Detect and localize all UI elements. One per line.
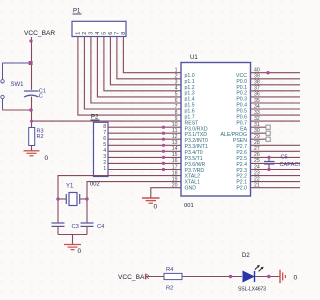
wire (P2.6 pin 27): [251, 150, 301, 152]
wire (P0.5 pin 34): [251, 108, 301, 110]
resistor R3: [29, 128, 44, 146]
svg-text:3: 3: [88, 32, 94, 35]
capacitor C4: [81, 223, 106, 230]
wire (P2.0 pin 21): [251, 187, 301, 189]
svg-text:D2: D2: [242, 253, 250, 259]
svg-text:CAPACITOR: CAPACITOR: [280, 162, 301, 168]
svg-text:Y1: Y1: [66, 184, 74, 190]
svg-text:2: 2: [82, 32, 88, 35]
capacitor C5 (on P2.5/P2.3 lines): [264, 155, 312, 171]
wire (P2 pin 4 to U1 pin 14): [108, 150, 181, 153]
wire (P2 pin 7 to U1 pin 11): [108, 132, 181, 135]
wire (P1 pin 1 to U1 pin 8): [78, 37, 181, 116]
wire (P2 pin 5 to U1 pin 13): [108, 144, 181, 147]
node 002 (net label): [90, 182, 100, 188]
wire (P2 pin 1 to U1 pin 17): [108, 168, 181, 171]
wire (P0.1 pin 38): [251, 84, 301, 86]
svg-text:12: 12: [172, 134, 178, 140]
capacitor C3: [52, 223, 79, 230]
wire (P1 pin 3 to U1 pin 6): [91, 37, 181, 104]
wire (P1 pin 5 to U1 pin 4): [104, 37, 181, 91]
node VCC_BAR (top power net label): [24, 30, 55, 37]
wire (P1 pin 8 to U1 pin 1): [123, 37, 181, 73]
svg-text:1: 1: [175, 68, 178, 74]
node VCC_BAR (power port tick): [145, 274, 147, 280]
wire (VCC_BAR vertical rail): [29, 37, 32, 90]
wire (SW1 top connection): [3, 61, 33, 65]
wire (SW1 bottom connection): [3, 108, 33, 112]
svg-text:8: 8: [121, 32, 127, 35]
svg-text:6: 6: [108, 32, 114, 35]
ground (U1 GND): [142, 198, 160, 211]
svg-text:19: 19: [172, 176, 178, 182]
svg-text:C3: C3: [72, 224, 79, 230]
wire (VCC_BAR to R4): [146, 276, 164, 278]
svg-text:2: 2: [103, 160, 106, 166]
wire (R4 to D2): [182, 275, 242, 278]
svg-text:0: 0: [294, 275, 298, 282]
wire (R3 to ground): [31, 146, 33, 151]
svg-text:4: 4: [103, 148, 106, 154]
svg-text:7: 7: [175, 104, 178, 110]
wire (P2.7 pin 28): [251, 144, 301, 146]
wire (P2.2 pin 23): [251, 175, 301, 177]
wire (ALE/PROG pin 30 no-connect): [251, 131, 271, 135]
wire (XTAL2 to crystal left rail): [58, 176, 181, 223]
wire (P0.7 pin 32): [251, 120, 301, 122]
wire (C1 bottom to reset node): [31, 97, 33, 128]
switch SW1: [1, 63, 24, 110]
svg-text:0: 0: [45, 155, 49, 162]
wire (P2 pin 8 to U1 pin 10): [108, 126, 181, 129]
wire (P1 pin 2 to U1 pin 7): [84, 37, 181, 110]
ground (crystal caps): [64, 245, 82, 255]
wire (P2.3 pin 24): [251, 169, 301, 171]
connector P1: [72, 9, 127, 37]
wire (XTAL1 to crystal right rail): [87, 182, 181, 223]
svg-text:14: 14: [172, 146, 178, 152]
svg-text:002: 002: [90, 182, 100, 188]
svg-text:20: 20: [172, 183, 178, 189]
svg-text:7: 7: [114, 32, 120, 35]
svg-text:9: 9: [175, 116, 178, 122]
wire (P2.4 pin 25): [251, 162, 301, 164]
svg-text:5: 5: [101, 32, 107, 35]
svg-text:R2: R2: [37, 134, 44, 140]
wire (P2.5 pin 26): [251, 156, 301, 158]
wire (P1 pin 4 to U1 pin 5): [97, 37, 181, 97]
ground (LED, rotated): [280, 270, 298, 283]
wire (D2 to ground): [255, 275, 280, 278]
svg-text:0: 0: [154, 204, 158, 211]
svg-text:C: C: [39, 94, 43, 100]
svg-text:17: 17: [172, 164, 178, 170]
svg-text:R4: R4: [166, 267, 174, 273]
LED D2: [238, 253, 266, 293]
wire (P0.0 pin 39): [251, 78, 301, 80]
svg-text:4: 4: [175, 86, 178, 92]
node VCC_BAR (bottom power net label): [118, 274, 149, 281]
capacitor C1: [24, 89, 46, 100]
svg-text:R2: R2: [166, 286, 173, 292]
wire (C3/C4 commons to ground): [58, 226, 87, 244]
wire (P2 pin 2 to U1 pin 16): [108, 162, 181, 165]
wire (EA pin 31 no-connect): [251, 125, 271, 129]
svg-text:1: 1: [103, 166, 106, 172]
wire (P0.4 pin 35): [251, 102, 301, 104]
wire (P0.6 pin 33): [251, 114, 301, 116]
svg-text:C5: C5: [281, 155, 288, 161]
svg-text:C4: C4: [97, 224, 105, 230]
svg-text:4: 4: [95, 32, 101, 35]
connector P2: [91, 115, 109, 177]
svg-text:VCC_BAR: VCC_BAR: [24, 30, 55, 37]
wire (P2.1 pin 22): [251, 181, 301, 183]
svg-text:001: 001: [184, 203, 194, 209]
wire (PSEN pin 29 no-connect): [251, 137, 271, 141]
svg-text:GND: GND: [185, 186, 197, 192]
svg-text:5: 5: [175, 92, 178, 98]
svg-text:1: 1: [75, 32, 81, 35]
wire (P1 pin 7 to U1 pin 2): [117, 37, 181, 79]
wire (VCC pin 40): [251, 71, 301, 74]
wire (P0.2 pin 37): [251, 90, 301, 92]
wire (P0.3 pin 36): [251, 96, 301, 98]
ground (below R3): [24, 151, 49, 162]
crystal Y1: [56, 184, 88, 206]
svg-text:SSL-LX4673: SSL-LX4673: [238, 287, 266, 293]
svg-text:16: 16: [172, 158, 178, 164]
svg-text:P2.0: P2.0: [236, 186, 247, 192]
wire (U1 GND pin 20 to ground): [151, 188, 181, 198]
svg-text:VCC_BAR: VCC_BAR: [118, 274, 149, 281]
svg-text:6: 6: [103, 136, 106, 142]
wire (P2 pin 3 to U1 pin 15): [108, 156, 181, 159]
op-amp U1 (microcontroller 8051): [172, 55, 260, 209]
svg-text:U1: U1: [190, 55, 198, 61]
wire (P2 pin 6 to U1 pin 12): [108, 138, 181, 141]
svg-text:SW1: SW1: [11, 82, 25, 88]
wire (P1 pin 6 to U1 pin 3): [110, 37, 181, 85]
svg-text:0: 0: [78, 248, 82, 255]
resistor R4: [164, 267, 182, 292]
wire (reset node to chip pin 9 REST): [30, 120, 181, 123]
